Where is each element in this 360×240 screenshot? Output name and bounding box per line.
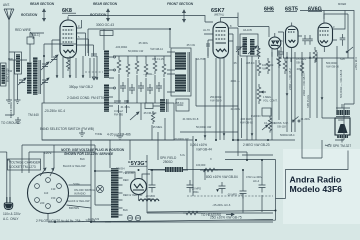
wire 6sk7 region drops — [196, 47, 256, 160]
dashed chassis line — [187, 195, 273, 197]
wire 6K8 pin drops — [52, 20, 94, 58]
svg-text:TO HEATERS: TO HEATERS — [201, 213, 221, 217]
svg-text:465 ±1.15: 465 ±1.15 — [152, 57, 164, 61]
wire 6ST5 bottom — [277, 46, 292, 132]
svg-text:.05 400v: .05 400v — [138, 41, 149, 45]
svg-text:.0001: .0001 — [270, 43, 277, 47]
svg-text:GB-118: GB-118 — [277, 125, 286, 129]
svg-text:CONS. S.W.: CONS. S.W. — [274, 121, 289, 125]
svg-text:.05 FM-440: .05 FM-440 — [143, 111, 157, 115]
speaker SP1 — [335, 118, 350, 138]
capacitor C6 — [129, 84, 135, 94]
tube 6SK7 — [213, 18, 233, 59]
tube 6K8 — [60, 17, 82, 59]
svg-text:Modelo 43F6: Modelo 43F6 — [290, 184, 343, 194]
svg-text:150: 150 — [51, 196, 56, 200]
svg-text:SPK PLUG: SPK PLUG — [306, 95, 310, 108]
svg-text:110: 110 — [44, 191, 49, 195]
svg-text:50,000Ω ⅛W: 50,000Ω ⅛W — [196, 125, 212, 129]
electrolytic C21b — [219, 182, 226, 194]
down arrow c21b — [216, 189, 219, 192]
wire avc bus — [119, 74, 164, 103]
svg-text:-100,000Ω: -100,000Ω — [115, 45, 127, 49]
svg-text:.25 MEG: .25 MEG — [152, 125, 162, 129]
resistor R21 — [183, 211, 201, 215]
svg-text:455 KC: 455 KC — [175, 101, 184, 105]
wire left down — [0, 151, 7, 153]
svg-text:500,000Ω — ¼W GB-16: 500,000Ω — ¼W GB-16 — [339, 69, 343, 98]
loading coil box — [15, 52, 22, 74]
loading coil winding — [16, 54, 20, 72]
resistor R14 — [300, 60, 304, 76]
svg-text:IN RADIO: IN RADIO — [74, 192, 86, 196]
svg-text:SPK: SPK — [340, 57, 345, 61]
svg-text:—465Ω—: —465Ω— — [143, 72, 155, 76]
svg-text:.006 ±10%: .006 ±10% — [240, 117, 253, 121]
svg-text:3A-7N6: 3A-7N6 — [196, 57, 205, 61]
svg-text:240Ω — ¼W GB-17: 240Ω — ¼W GB-17 — [302, 72, 306, 96]
capacitor C9 — [156, 82, 162, 92]
resistor R3 — [135, 58, 139, 74]
wire top bus to 6SK7 — [68, 16, 213, 23]
wire long verticals — [238, 56, 256, 156]
switch S2 — [292, 120, 294, 122]
svg-text:.05 ¼W: .05 ¼W — [186, 43, 195, 47]
socket jumper wires — [44, 145, 54, 168]
svg-text:FRONT SECTION: FRONT SECTION — [167, 2, 194, 6]
resistor R4 — [144, 61, 148, 77]
socket pin 5 — [35, 198, 40, 203]
pilot lamp P1 — [97, 186, 104, 193]
padder trimmer box — [145, 103, 153, 109]
field coil L11 — [165, 167, 183, 172]
wire IF1 leads — [167, 52, 175, 92]
resistor R1 — [117, 57, 121, 73]
svg-text:FM-785: FM-785 — [114, 113, 123, 117]
svg-text:X: X — [210, 157, 212, 161]
svg-text:TONE: TONE — [95, 132, 102, 136]
svg-text:.01 400v: .01 400v — [120, 105, 131, 109]
svg-text:250,000Ω: 250,000Ω — [210, 95, 221, 99]
switch arrow — [130, 112, 139, 120]
svg-text:6.3v: 6.3v — [180, 153, 186, 157]
down arrow s2 — [286, 93, 289, 96]
resistor R7 — [151, 111, 154, 124]
svg-text:BLACK & YELLOW: BLACK & YELLOW — [63, 164, 86, 168]
wire IF2 top — [221, 13, 239, 27]
svg-text:0.1—200v: 0.1—200v — [264, 121, 277, 125]
svg-text:A.C. ONLY: A.C. ONLY — [3, 217, 19, 221]
resistor R0 — [66, 58, 69, 71]
svg-text:220: 220 — [40, 201, 45, 205]
wire audio verticals — [272, 46, 354, 140]
antenna coil core — [39, 60, 41, 94]
svg-text:BROWN: BROWN — [69, 206, 79, 210]
svg-text:ROTATION: ROTATION — [90, 13, 107, 17]
antenna coil L1a — [27, 62, 32, 94]
svg-text:400Ω: 400Ω — [338, 118, 344, 122]
resistor R12 — [266, 58, 270, 74]
socket arrows — [40, 168, 54, 176]
svg-text:½W GB-16: ½W GB-16 — [326, 65, 339, 69]
svg-text:& FN-723: & FN-723 — [88, 217, 100, 221]
oscillator coil L2b — [104, 84, 109, 112]
wire mid horizontals low — [95, 132, 193, 213]
electrolytic C20 — [149, 180, 156, 193]
wire audio horizontals — [180, 106, 295, 155]
svg-text:.0001 —: .0001 — — [230, 79, 240, 83]
tube 5Y3G — [131, 179, 147, 195]
drop arrows — [56, 75, 99, 80]
heater arrow — [226, 213, 234, 215]
volume control R11 — [257, 84, 261, 104]
svg-text:RED: RED — [123, 178, 129, 182]
wire grid drops — [57, 56, 97, 80]
wire antenna feed — [9, 33, 44, 100]
output transformer T6 — [336, 110, 350, 115]
svg-text:½W GB-14: ½W GB-14 — [150, 47, 163, 51]
socket side wires — [67, 185, 92, 208]
wire 5y3 leads — [125, 172, 150, 201]
resistor R10 — [257, 60, 261, 76]
antenna coil L1b — [33, 57, 38, 95]
ac plug body — [5, 204, 12, 209]
socket pin 2 — [57, 184, 62, 189]
svg-text:.01 200v: .01 200v — [300, 117, 311, 121]
capacitor C15 — [340, 34, 346, 46]
svg-text:47Ω ¼w 400v: 47Ω ¼w 400v — [246, 175, 263, 179]
svg-text:+250v W-4: +250v W-4 — [354, 57, 358, 70]
resistor R18 — [257, 46, 260, 59]
resistor R6 — [162, 61, 166, 77]
resistor R2 — [126, 61, 130, 77]
socket pin 3 — [57, 198, 62, 203]
IF transformer T2 can — [171, 48, 191, 96]
trimmer capacitor C1 — [18, 78, 26, 85]
svg-text:350μμ ¼W GB-2: 350μμ ¼W GB-2 — [69, 85, 93, 89]
trimmer capacitor C31 — [124, 101, 129, 113]
fuse F1 — [127, 215, 132, 220]
drop arrows mid — [204, 133, 254, 138]
wire field leads — [148, 169, 233, 171]
svg-text:1 MEG.: 1 MEG. — [263, 95, 272, 99]
wire b+ bus top — [150, 170, 233, 180]
resistor R13 — [283, 58, 287, 74]
svg-text:BLK: BLK — [80, 157, 85, 161]
svg-text:2500Ω: 2500Ω — [163, 160, 173, 164]
wire left drop — [5, 60, 14, 115]
svg-text:3A-1N5: 3A-1N5 — [243, 28, 252, 32]
svg-text:*220v: *220v — [73, 182, 80, 186]
svg-text:110v & 220v: 110v & 220v — [3, 212, 21, 216]
svg-text:2 GANG COND. FM 6TT0: 2 GANG COND. FM 6TT0 — [67, 96, 104, 100]
svg-text:HC-4: HC-4 — [253, 179, 260, 183]
band coil core — [167, 99, 169, 112]
wave trap box — [1, 63, 7, 86]
svg-text:ON-OFF SWITCH: ON-OFF SWITCH — [74, 188, 95, 192]
svg-text:80Ω ±10% ¼W GB-84: 80Ω ±10% ¼W GB-84 — [206, 175, 238, 179]
link box 6A-1 — [27, 37, 34, 44]
padder box — [100, 31, 113, 36]
IF2 secondary winding — [250, 39, 255, 55]
svg-text:120V.: 120V. — [44, 151, 52, 155]
choke L10 — [139, 199, 159, 201]
svg-text:SOCKET TM-1273: SOCKET TM-1273 — [9, 165, 36, 169]
capacitor C5 — [120, 82, 126, 92]
tube 6H6 — [269, 33, 283, 57]
tone switch — [347, 47, 353, 52]
tube 6V6G — [318, 19, 337, 52]
svg-text:.01 600v 6C-8: .01 600v 6C-8 — [182, 117, 199, 121]
wave trap winding — [2, 65, 6, 84]
wire ac runs — [22, 145, 95, 173]
tuning gang C4 — [50, 55, 58, 63]
volume control R17 — [268, 116, 271, 133]
oscillator coil L2a — [104, 50, 109, 78]
svg-text:.05: .05 — [233, 61, 237, 65]
wire right column long — [324, 14, 348, 140]
svg-text:ROTATION: ROTATION — [21, 13, 38, 17]
resistor R5 — [153, 58, 157, 74]
svg-text:¼W GB-62: ¼W GB-62 — [240, 121, 253, 125]
IF1 primary winding — [175, 52, 186, 70]
svg-text:BLACK & YELLOW: BLACK & YELLOW — [67, 199, 90, 203]
wire osc trimmer — [91, 54, 97, 80]
tube 6ST5 — [286, 23, 303, 54]
svg-text:YELLOW: YELLOW — [123, 171, 134, 175]
svg-text:0.5 MEG: 0.5 MEG — [296, 57, 306, 61]
electrolytic C23 — [259, 180, 266, 193]
capacitor C7 — [138, 82, 144, 92]
electrolytic C21 — [187, 180, 194, 193]
capacitor C12 — [278, 47, 284, 59]
svg-text:REAR SECTION: REAR SECTION — [93, 2, 118, 6]
wire right steps — [148, 160, 276, 221]
svg-text:50,000Ω ¼W: 50,000Ω ¼W — [128, 49, 144, 53]
IF transformer T3 can — [240, 34, 258, 56]
svg-text:VOLTAGE CHANGER: VOLTAGE CHANGER — [9, 161, 41, 165]
svg-text:SHOWN FOR 110-120V SERVICE: SHOWN FOR 110-120V SERVICE — [64, 152, 114, 156]
up arrow b — [309, 56, 312, 59]
trimmer capacitor C11 — [236, 47, 241, 55]
antenna A1 — [4, 9, 14, 60]
fuse F2 — [135, 215, 140, 220]
up arrow a — [286, 56, 289, 59]
svg-text:BLACK WIRE: BLACK WIRE — [9, 102, 13, 118]
svg-text:130: 130 — [51, 187, 56, 191]
wire 6SK7 pin drops — [204, 34, 233, 103]
wire screen bus — [113, 56, 171, 61]
voltage changer socket — [28, 173, 69, 214]
light corner patch — [283, 149, 360, 224]
svg-text:JA-70: JA-70 — [203, 28, 210, 32]
ground switch — [79, 130, 85, 137]
IF2 trimmer arrow — [236, 43, 257, 54]
svg-text:TM 440: TM 440 — [28, 113, 39, 117]
power transformer T5 winding — [111, 168, 119, 218]
capacitor C4b — [206, 44, 210, 56]
output plug box — [262, 108, 271, 116]
wire heater bus top right — [277, 58, 354, 62]
svg-text:BAND SELECTOR SWITCH (FM WB): BAND SELECTOR SWITCH (FM WB) — [40, 127, 94, 131]
rotation arrow 2 — [107, 9, 110, 21]
svg-text:RED WIRE: RED WIRE — [15, 28, 31, 32]
dashed link to osc coil — [85, 71, 103, 73]
IF1 core — [188, 52, 190, 92]
wire switch internals — [115, 100, 165, 140]
svg-text:ANT.: ANT. — [3, 3, 10, 7]
wire 6V6 top right — [300, 11, 354, 105]
svg-text:5000Ω GB-4: 5000Ω GB-4 — [280, 133, 295, 137]
rotation arrow 1 — [43, 9, 46, 21]
wire bottom of switch to right — [42, 139, 193, 141]
svg-text:450v: 450v — [193, 190, 199, 194]
svg-text:REAR SECTION: REAR SECTION — [30, 2, 55, 6]
ground ant — [6, 100, 12, 104]
resistor box 400ohm — [176, 99, 189, 111]
svg-text:465 KC: 465 KC — [246, 61, 255, 65]
IF2 primary winding — [243, 37, 248, 54]
svg-text:.02-600v: .02-600v — [230, 107, 241, 111]
wire 6V6 plate — [337, 11, 345, 30]
svg-text:3-30μμf: 3-30μμf — [114, 109, 123, 113]
trimmer capacitor C2 — [41, 78, 49, 85]
band selector switch box — [42, 103, 174, 140]
svg-text:0,004 ±10%: 0,004 ±10% — [190, 143, 207, 147]
tuning gang C3 — [41, 62, 49, 70]
svg-text:4.5′ SPK TM-327: 4.5′ SPK TM-327 — [327, 144, 351, 148]
ground trimmer — [117, 136, 123, 140]
wire gang bus — [18, 44, 78, 103]
ac plug — [4, 197, 12, 210]
svg-text:MIXER: MIXER — [338, 2, 346, 6]
svg-text:(METAL): (METAL) — [214, 13, 224, 17]
wire speaker leads — [302, 104, 342, 158]
socket pin 6 — [35, 184, 40, 189]
osc coil taps — [109, 57, 114, 106]
ground symbol left — [15, 117, 21, 124]
ac cord wires — [7, 152, 11, 197]
svg-text:500,000Ω: 500,000Ω — [326, 61, 337, 65]
svg-text:VOL. CONT.: VOL. CONT. — [263, 99, 278, 103]
wire osc line — [88, 29, 170, 53]
rotation arrow 3 — [183, 10, 186, 22]
socket pin 4 — [46, 204, 51, 209]
wire socket to bus — [48, 214, 273, 223]
down arrow c — [321, 97, 324, 100]
ground gang — [15, 100, 21, 104]
svg-text:RED & YELLOW: RED & YELLOW — [123, 193, 143, 197]
svg-text:(6A-1): (6A-1) — [31, 33, 40, 37]
resistor R20 — [200, 168, 218, 172]
svg-text:¼W GB-44: ¼W GB-44 — [196, 148, 212, 152]
resistor R15 — [313, 47, 317, 63]
wire 6SK7 to IF2 — [233, 27, 284, 59]
svg-text:-20 MFD: -20 MFD — [191, 187, 201, 191]
title box outline — [276, 151, 349, 199]
trimmer capacitor C30 — [116, 101, 121, 113]
voltage changer label box — [8, 159, 41, 170]
transformer terminals — [119, 172, 123, 215]
svg-text:20,000Ω 1W: 20,000Ω 1W — [174, 137, 189, 141]
svg-text:BLK: BLK — [123, 208, 128, 212]
resistor R16 — [277, 55, 280, 68]
svg-text:GB-35: GB-35 — [296, 61, 304, 65]
IF1 secondary winding — [175, 74, 186, 92]
coupling caps — [302, 35, 313, 45]
band coil L3 — [160, 99, 165, 112]
capacitor C8 — [147, 84, 153, 94]
svg-text:100,000: 100,000 — [196, 163, 206, 167]
svg-text:.005: .005 — [296, 67, 302, 71]
svg-text:2 MEG ¼W GB-23: 2 MEG ¼W GB-23 — [243, 143, 270, 147]
svg-text:-20-250v. 6C-4: -20-250v. 6C-4 — [44, 109, 65, 113]
svg-text:-.05-200v. HC-6: -.05-200v. HC-6 — [212, 203, 231, 207]
socket pin 1 — [46, 178, 51, 183]
electrolytic C22 — [240, 186, 247, 199]
svg-text:PHONO: PHONO — [251, 114, 261, 118]
wire transformer left — [91, 140, 111, 222]
wire bottom buses — [105, 160, 273, 222]
svg-text:300Ω GC-43: 300Ω GC-43 — [96, 23, 114, 27]
svg-text:¼W GB-9: ¼W GB-9 — [210, 99, 222, 103]
